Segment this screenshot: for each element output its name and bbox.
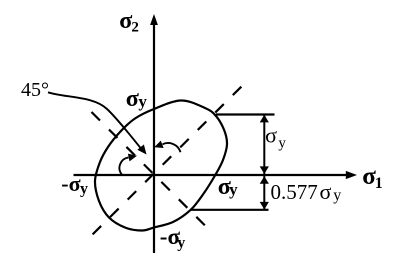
svg-text:σ: σ xyxy=(126,86,139,112)
dashed 135deg line (minor axis) xyxy=(92,112,210,230)
dim arrow down bottom xyxy=(260,202,269,210)
small rotation arc left of vertical axis xyxy=(119,158,128,175)
svg-text:y: y xyxy=(333,187,341,204)
dashed 45deg line (major axis) xyxy=(89,85,243,238)
svg-text:45°: 45° xyxy=(21,79,49,101)
dim arrow up top xyxy=(260,115,269,123)
svg-text:σ: σ xyxy=(265,123,277,148)
axis sigma1 (horizontal) xyxy=(74,174,349,176)
dim arrow down to axis xyxy=(260,166,269,174)
svg-text:2: 2 xyxy=(131,20,139,36)
dimension line bottom xyxy=(191,209,269,211)
von Mises ellipse xyxy=(95,100,227,230)
small rotation arc right of vertical axis xyxy=(163,143,181,152)
leader curve from 45deg label xyxy=(48,92,141,148)
svg-text:y: y xyxy=(229,180,238,199)
svg-text:y: y xyxy=(278,136,286,152)
svg-text:0.577: 0.577 xyxy=(271,180,318,204)
svg-text:σ: σ xyxy=(119,8,132,34)
svg-text:1: 1 xyxy=(375,175,383,192)
dimension line top xyxy=(216,113,275,115)
axis sigma2 (vertical) xyxy=(153,22,155,253)
svg-text:y: y xyxy=(80,181,88,198)
svg-text:y: y xyxy=(177,235,185,252)
svg-text:-σ: -σ xyxy=(61,171,80,196)
dim arrow up from axis xyxy=(260,176,269,184)
svg-text:σ: σ xyxy=(320,179,332,204)
svg-text:y: y xyxy=(138,92,147,111)
dimension vertical line xyxy=(263,115,265,210)
